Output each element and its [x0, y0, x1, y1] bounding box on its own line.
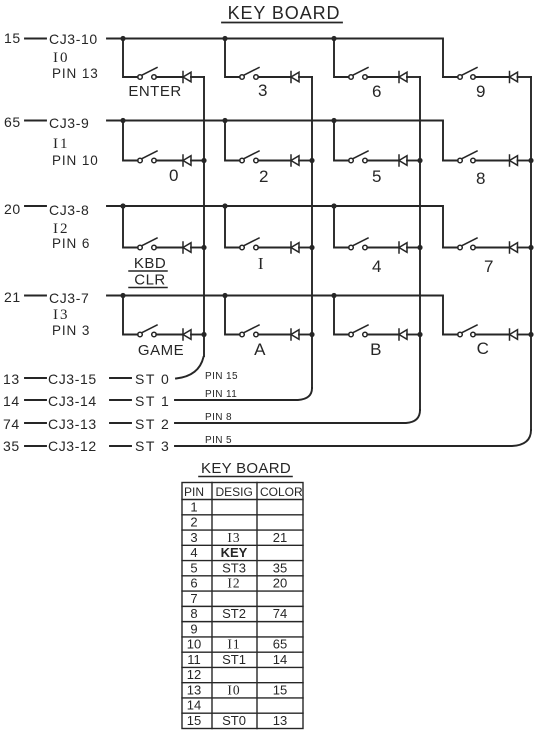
wire lead 21 to CJ3-7 [25, 295, 46, 297]
wire net ST1 to column 2 [175, 388, 312, 400]
wire diode I to column [299, 247, 312, 249]
wire diode C to column [518, 334, 532, 336]
svg-text:PIN 11: PIN 11 [205, 389, 237, 400]
wire lead 20 to CJ3-8 [25, 205, 46, 207]
svg-text:65: 65 [4, 114, 21, 130]
table row pin 4 KEY!B - [190, 545, 247, 560]
node ST1 output labels: 14 CJ3-14 ST 1 [3, 393, 170, 409]
junction column 2 at A [309, 332, 314, 337]
svg-text:7: 7 [484, 257, 494, 276]
junction row I2 branch 2 [222, 203, 227, 208]
svg-text:2: 2 [259, 167, 269, 186]
diode for key KBD/CLR (cathode bar left, triangle) [183, 242, 191, 253]
svg-text:7: 7 [190, 591, 197, 606]
wire lead CJ3-13 to ST 2 [110, 422, 131, 424]
switch key I [240, 238, 259, 250]
svg-text:CJ3-15: CJ3-15 [48, 371, 97, 387]
wire switch GAME to diode [156, 334, 183, 336]
svg-text:3: 3 [190, 530, 197, 545]
switch key 5 [349, 151, 368, 163]
wire branch to switch 2 [225, 121, 240, 161]
node I2 input labels: 20 CJ3-8 I2 PIN 6 [4, 201, 90, 251]
table row pin 12 - - [187, 667, 201, 682]
junction row I0 branch 3 [331, 36, 336, 41]
switch key 4 [349, 238, 368, 250]
diode for key C (cathode bar left, triangle) [510, 329, 518, 340]
switch key KBD/CLR [138, 238, 157, 250]
table row pin 14 - - [187, 698, 201, 713]
svg-text:I3: I3 [227, 530, 240, 545]
wire column 1 vertical (net ST0) [203, 77, 205, 356]
switch key ENTER [138, 68, 157, 80]
table row pin 3 I3 21 [190, 530, 287, 545]
node I1 input labels: 65 CJ3-9 I1 PIN 10 [4, 114, 99, 168]
node ST2 output labels: 74 CJ3-13 ST 2 [3, 416, 170, 432]
svg-text:PIN 5: PIN 5 [205, 435, 232, 446]
wire net ST3 to column 4 [175, 430, 531, 446]
svg-text:CJ3-14: CJ3-14 [48, 393, 97, 409]
wire diode 5 to column [407, 160, 420, 162]
junction column 1 at KBD/CLR [201, 245, 206, 250]
key label KBD/CLR [129, 255, 167, 289]
wire switch ENTER to diode [156, 76, 183, 78]
junction row I2 branch 1 [120, 203, 125, 208]
svg-text:21: 21 [273, 530, 287, 545]
diode for key 3 (cathode bar left, triangle) [291, 72, 299, 83]
svg-text:9: 9 [190, 621, 197, 636]
wire row net I3 (horizontal bus with corner to last branch) [107, 296, 443, 335]
node I3 input labels: 21 CJ3-7 I3 PIN 3 [4, 289, 90, 338]
svg-text:CJ3-9: CJ3-9 [49, 115, 89, 131]
junction column 3 at 5 [417, 158, 422, 163]
svg-text:PIN 6: PIN 6 [52, 236, 90, 251]
svg-text:I2: I2 [53, 221, 70, 237]
wire diode 8 to column [518, 160, 532, 162]
svg-text:KEY: KEY [221, 545, 248, 560]
junction row I1 branch 2 [222, 118, 227, 123]
svg-text:CJ3-7: CJ3-7 [49, 290, 89, 306]
connector table grid [182, 483, 303, 729]
junction row I2 branch 3 [331, 203, 336, 208]
wire switch 8 to diode [475, 160, 509, 162]
wire switch 2 to diode [258, 160, 291, 162]
node ST0 output labels: 13 CJ3-15 ST 0 [3, 371, 170, 387]
wire branch to switch 5 [334, 121, 349, 161]
wire branch to switch 6 [334, 39, 349, 78]
switch key 8 [458, 151, 477, 163]
svg-text:I1: I1 [53, 136, 70, 152]
svg-text:5: 5 [190, 560, 197, 575]
diode for key A (cathode bar left, triangle) [291, 329, 299, 340]
wire lead 14 to CJ3-14 [25, 399, 46, 401]
wire switch 9 to diode [475, 76, 509, 78]
svg-text:35: 35 [273, 560, 287, 575]
svg-text:ST 0: ST 0 [135, 371, 170, 387]
svg-text:8: 8 [190, 606, 197, 621]
svg-text:CJ3-13: CJ3-13 [48, 416, 97, 432]
wire branch to switch 7 [443, 247, 458, 249]
table row pin 8 ST2 74 [190, 606, 287, 621]
junction row I3 branch 1 [120, 293, 125, 298]
wire diode 6 to column [407, 76, 420, 78]
wire diode A to column [299, 334, 312, 336]
svg-text:CJ3-8: CJ3-8 [49, 202, 89, 218]
svg-text:35: 35 [3, 438, 20, 454]
diode for key GAME (cathode bar left, triangle) [183, 329, 191, 340]
wire switch C to diode [475, 334, 509, 336]
wire branch to switch KBD/CLR [123, 206, 138, 248]
wire diode KBD/CLR to column [191, 247, 204, 249]
table row pin 7 - - [190, 591, 197, 606]
svg-text:ST0: ST0 [222, 713, 246, 728]
svg-text:CLR: CLR [134, 272, 166, 289]
wire switch KBD/CLR to diode [156, 247, 183, 249]
diode for key B (cathode bar left, triangle) [399, 329, 407, 340]
svg-text:11: 11 [187, 652, 201, 667]
svg-text:65: 65 [273, 637, 287, 652]
junction row I3 branch 3 [331, 293, 336, 298]
wire branch to switch 0 [123, 121, 138, 161]
svg-text:6: 6 [190, 576, 197, 591]
junction column 3 at B [417, 332, 422, 337]
svg-text:9: 9 [476, 82, 486, 101]
table row pin 11 ST1 14 [187, 652, 287, 667]
svg-text:20: 20 [4, 201, 21, 217]
wire diode 3 to column [299, 76, 312, 78]
junction row I3 branch 2 [222, 293, 227, 298]
wire branch to switch 4 [334, 206, 349, 248]
switch key 2 [240, 151, 259, 163]
svg-text:15: 15 [187, 713, 201, 728]
diode for key 6 (cathode bar left, triangle) [399, 72, 407, 83]
wire branch to switch ENTER [123, 39, 138, 78]
diode for key 2 (cathode bar left, triangle) [291, 155, 299, 166]
svg-text:I0: I0 [53, 50, 70, 66]
wire switch 4 to diode [367, 247, 399, 249]
junction row I0 branch 2 [222, 36, 227, 41]
wire lead CJ3-14 to ST 1 [110, 399, 131, 401]
switch key GAME [138, 325, 157, 337]
title KEY BOARD (schematic) [222, 3, 342, 23]
svg-text:DESIG: DESIG [216, 485, 253, 499]
diode for key 7 (cathode bar left, triangle) [510, 242, 518, 253]
svg-text:A: A [254, 340, 266, 359]
switch key 3 [240, 68, 259, 80]
svg-text:PIN 10: PIN 10 [52, 153, 99, 168]
diode for key 8 (cathode bar left, triangle) [510, 155, 518, 166]
svg-text:PIN 15: PIN 15 [205, 371, 238, 382]
wire diode B to column [407, 334, 420, 336]
wire switch 0 to diode [156, 160, 183, 162]
svg-text:ST 3: ST 3 [135, 438, 170, 454]
table header PIN DESIG COLOR [184, 485, 303, 499]
wire lead 65 to CJ3-9 [25, 120, 46, 122]
svg-text:ST1: ST1 [222, 652, 246, 667]
svg-text:ST 1: ST 1 [135, 393, 170, 409]
wire diode 9 to column [518, 76, 532, 78]
svg-text:13: 13 [273, 713, 287, 728]
svg-text:COLOR: COLOR [260, 485, 303, 499]
svg-text:13: 13 [3, 371, 20, 387]
wire lead 74 to CJ3-13 [25, 422, 46, 424]
svg-text:GAME: GAME [138, 342, 184, 359]
junction column 3 at 4 [417, 245, 422, 250]
wire row net I1 (horizontal bus with corner to last branch) [107, 121, 443, 161]
wire branch to switch 9 [443, 76, 458, 78]
svg-text:I2: I2 [227, 576, 240, 591]
wire diode 7 to column [518, 247, 532, 249]
wire diode GAME to column [191, 334, 204, 336]
table row pin 5 ST3 35 [190, 560, 287, 575]
wire diode 0 to column [191, 160, 204, 162]
diode for key I (cathode bar left, triangle) [291, 242, 299, 253]
svg-text:20: 20 [273, 576, 287, 591]
svg-text:15: 15 [273, 683, 287, 698]
wire switch 7 to diode [475, 247, 509, 249]
svg-text:14: 14 [187, 698, 201, 713]
node ST3 output labels: 35 CJ3-12 ST 3 [3, 438, 170, 454]
svg-text:PIN 8: PIN 8 [205, 412, 232, 423]
table row pin 10 I1 65 [187, 637, 287, 652]
wire diode 2 to column [299, 160, 312, 162]
svg-text:12: 12 [187, 667, 201, 682]
svg-text:15: 15 [4, 30, 21, 46]
svg-text:I0: I0 [227, 683, 240, 698]
svg-text:13: 13 [187, 683, 201, 698]
svg-text:6: 6 [372, 82, 382, 101]
diode for key 5 (cathode bar left, triangle) [399, 155, 407, 166]
svg-text:I1: I1 [227, 637, 240, 652]
switch key A [240, 325, 259, 337]
svg-text:CJ3-12: CJ3-12 [48, 438, 97, 454]
svg-text:ST 2: ST 2 [135, 416, 170, 432]
title KEY BOARD (connector table) [199, 460, 292, 477]
svg-text:KEY BOARD: KEY BOARD [201, 460, 291, 477]
junction row I0 branch 1 [120, 36, 125, 41]
wire switch 6 to diode [367, 76, 399, 78]
wire switch A to diode [258, 334, 291, 336]
svg-text:1: 1 [190, 499, 197, 514]
svg-text:PIN 3: PIN 3 [52, 323, 90, 338]
wire switch 5 to diode [367, 160, 399, 162]
svg-text:ST3: ST3 [222, 560, 246, 575]
wire diode ENTER to column [191, 76, 204, 78]
node I0 input labels: 15 CJ3-10 I0 PIN 13 [4, 30, 99, 81]
junction row I1 branch 1 [120, 118, 125, 123]
wire branch to switch 3 [225, 39, 240, 78]
svg-text:0: 0 [169, 166, 179, 185]
wire net ST0 to column 1 [176, 357, 204, 379]
wire lead 15 to CJ3-10 [25, 38, 46, 40]
wire branch to switch 8 [443, 160, 458, 162]
svg-text:ST2: ST2 [222, 606, 246, 621]
svg-text:21: 21 [4, 289, 21, 305]
svg-text:10: 10 [187, 637, 201, 652]
table row pin 13 I0 15 [187, 683, 287, 698]
svg-text:14: 14 [273, 652, 287, 667]
switch key 7 [458, 238, 477, 250]
switch key 0 [138, 151, 157, 163]
svg-text:4: 4 [190, 545, 197, 560]
svg-text:2: 2 [190, 515, 197, 530]
wire lead 35 to CJ3-12 [25, 445, 46, 447]
wire switch I to diode [258, 247, 291, 249]
junction column 2 at I [309, 245, 314, 250]
svg-text:CJ3-10: CJ3-10 [49, 31, 98, 47]
wire row net I0 (horizontal bus with corner to last branch) [107, 39, 443, 78]
wire branch to switch A [225, 296, 240, 335]
svg-text:ENTER: ENTER [128, 83, 181, 100]
svg-text:8: 8 [476, 169, 486, 188]
svg-text:KBD: KBD [134, 255, 166, 272]
svg-text:I3: I3 [53, 307, 70, 323]
junction column 4 at 8 [528, 158, 533, 163]
wire column 4 vertical (net ST3) [530, 77, 532, 430]
diode for key 0 (cathode bar left, triangle) [183, 155, 191, 166]
svg-text:KEY BOARD: KEY BOARD [228, 3, 341, 23]
svg-text:B: B [370, 340, 382, 359]
svg-text:5: 5 [372, 167, 382, 186]
svg-text:3: 3 [258, 81, 268, 100]
switch key 6 [349, 68, 368, 80]
wire lead CJ3-15 to ST 0 [110, 377, 131, 379]
switch key 9 [458, 68, 477, 80]
wire row net I2 (horizontal bus with corner to last branch) [107, 206, 443, 248]
table row pin 15 ST0 13 [187, 713, 287, 728]
wire column 2 vertical (net ST1) [311, 77, 313, 388]
wire branch to switch I [225, 206, 240, 248]
junction column 4 at 7 [528, 245, 533, 250]
diode for key 4 (cathode bar left, triangle) [399, 242, 407, 253]
svg-text:PIN 13: PIN 13 [52, 66, 99, 81]
wire net ST2 to column 3 [175, 410, 420, 423]
diode for key ENTER (cathode bar left, triangle) [183, 72, 191, 83]
svg-text:74: 74 [273, 606, 287, 621]
junction column 4 at C [528, 332, 533, 337]
table row pin 2 - - [190, 515, 197, 530]
svg-text:I: I [258, 254, 264, 273]
wire lead CJ3-12 to ST 3 [110, 445, 131, 447]
wire lead 13 to CJ3-15 [25, 377, 46, 379]
wire switch B to diode [367, 334, 399, 336]
junction row I1 branch 3 [331, 118, 336, 123]
junction column 2 at 2 [309, 158, 314, 163]
wire column 3 vertical (net ST2) [419, 77, 421, 410]
wire branch to switch C [443, 334, 458, 336]
switch key B [349, 325, 368, 337]
junction column 1 at GAME [201, 332, 206, 337]
table row pin 9 - - [190, 621, 197, 636]
wire branch to switch GAME [123, 296, 138, 335]
wire diode 4 to column [407, 247, 420, 249]
svg-text:4: 4 [372, 257, 382, 276]
diode for key 9 (cathode bar left, triangle) [510, 72, 518, 83]
svg-text:74: 74 [3, 416, 20, 432]
wire branch to switch B [334, 296, 349, 335]
wire switch 3 to diode [258, 76, 291, 78]
svg-text:PIN: PIN [184, 485, 204, 499]
table row pin 1 - - [190, 499, 197, 514]
junction column 1 at 0 [201, 158, 206, 163]
svg-text:C: C [477, 339, 490, 358]
table row pin 6 I2 20 [190, 576, 287, 591]
switch key C [458, 325, 477, 337]
svg-text:14: 14 [3, 393, 20, 409]
